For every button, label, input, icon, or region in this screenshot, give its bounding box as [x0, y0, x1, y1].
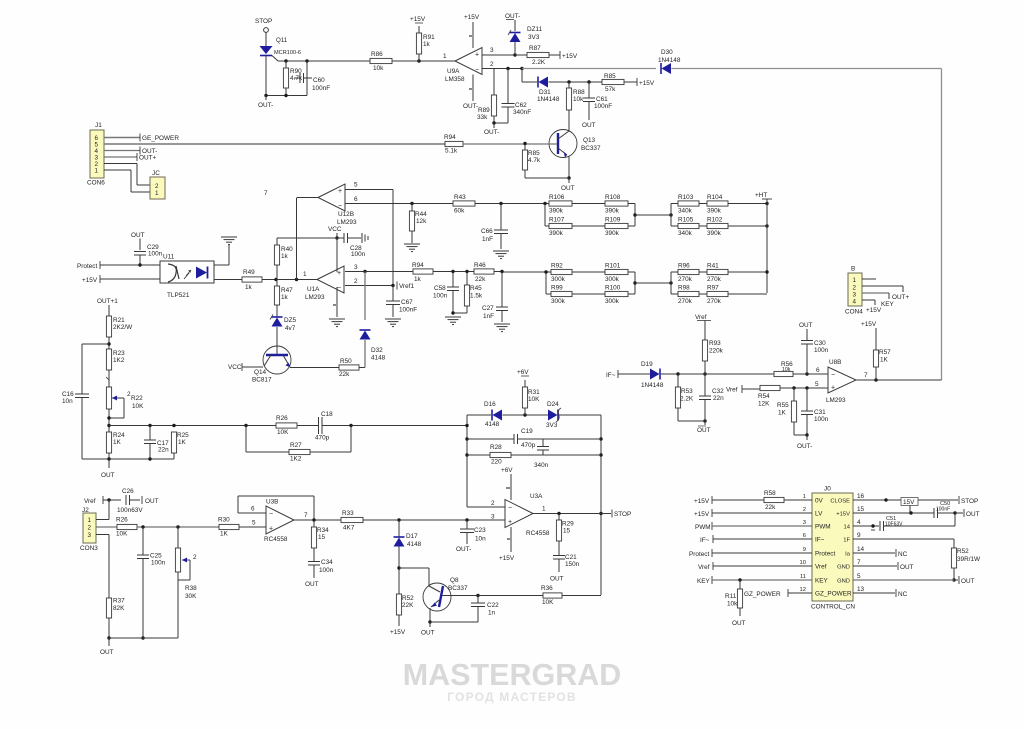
net VCC	[228, 363, 263, 371]
connector J2	[80, 507, 98, 552]
wire	[306, 61, 308, 96]
svg-text:12k: 12k	[416, 218, 427, 225]
svg-text:R41: R41	[707, 263, 719, 270]
diode D16	[484, 401, 502, 428]
svg-text:CON3: CON3	[80, 545, 98, 552]
wire pin2	[482, 61, 524, 70]
resistor R98	[671, 285, 699, 306]
resistor R90	[283, 61, 302, 96]
svg-text:VCC: VCC	[228, 364, 242, 371]
wire pin6 GE_POWER	[104, 134, 179, 143]
node STOP	[959, 496, 978, 505]
svg-text:1k: 1k	[423, 41, 431, 48]
resistor R47	[274, 280, 293, 318]
capacitor C66	[481, 204, 508, 250]
node OUT	[305, 581, 319, 588]
resistor R101	[605, 263, 628, 284]
resistor R25	[171, 432, 189, 459]
svg-text:KEY: KEY	[815, 578, 829, 585]
svg-text:RC4558: RC4558	[526, 530, 550, 537]
capacitor C22	[471, 596, 499, 617]
svg-text:10K: 10K	[277, 429, 289, 436]
wire pin1	[443, 53, 455, 61]
svg-text:IF~: IF~	[815, 537, 825, 544]
svg-text:R28: R28	[490, 444, 502, 451]
svg-text:OUT-: OUT-	[456, 546, 471, 553]
wire	[296, 198, 298, 280]
wire pin3	[482, 47, 527, 57]
svg-text:100n: 100n	[148, 251, 163, 258]
wire row5 right	[853, 549, 908, 558]
wire out	[533, 506, 611, 516]
svg-text:1K: 1K	[113, 439, 122, 446]
resistor R45	[464, 272, 482, 314]
svg-text:C18: C18	[321, 411, 333, 418]
power +15V	[390, 615, 406, 636]
svg-text:R30: R30	[218, 517, 230, 524]
wire pin6	[345, 196, 453, 205]
svg-text:R104: R104	[707, 194, 723, 201]
resistor R26b	[276, 415, 297, 436]
node STOP	[612, 510, 631, 519]
wire pin2	[104, 164, 150, 186]
svg-text:OUT: OUT	[697, 427, 711, 434]
resistor R30	[218, 517, 239, 538]
svg-text:CON6: CON6	[87, 180, 105, 187]
svg-text:R89: R89	[478, 107, 490, 114]
svg-text:U1A: U1A	[307, 286, 320, 293]
wire	[364, 272, 366, 321]
wire	[628, 204, 637, 227]
wire pin4	[862, 300, 882, 314]
svg-text:4148: 4148	[485, 421, 500, 428]
svg-text:CLOSE: CLOSE	[830, 499, 850, 505]
svg-text:100n: 100n	[151, 560, 166, 567]
svg-text:R100: R100	[605, 285, 621, 292]
wire pin5	[345, 182, 393, 190]
wire	[780, 381, 828, 390]
svg-text:−: −	[269, 511, 273, 518]
svg-text:R55: R55	[777, 402, 789, 409]
capacitor C28	[337, 233, 368, 258]
capacitor C60	[294, 73, 330, 92]
svg-text:1: 1	[542, 506, 546, 513]
resistor R58	[764, 490, 812, 511]
svg-text:C27: C27	[482, 305, 494, 312]
connector J0	[811, 486, 855, 611]
node OUT-	[484, 121, 508, 136]
svg-text:R25: R25	[177, 432, 189, 439]
svg-text:390k: 390k	[549, 230, 564, 237]
wire	[363, 518, 401, 521]
svg-text:5: 5	[857, 573, 861, 580]
net +HT	[755, 192, 772, 293]
svg-text:OUT: OUT	[561, 185, 575, 192]
wire	[545, 204, 549, 227]
svg-text:+15V: +15V	[390, 629, 406, 636]
svg-text:U11: U11	[163, 254, 175, 261]
svg-text:+15V: +15V	[836, 512, 850, 518]
wire	[952, 568, 955, 582]
wire	[628, 272, 637, 294]
ground	[494, 324, 510, 332]
svg-text:C26: C26	[122, 488, 134, 495]
diode D31	[537, 77, 560, 104]
resistor R94	[444, 134, 463, 155]
svg-text:KEY: KEY	[881, 301, 895, 308]
ground	[493, 251, 509, 259]
svg-text:1: 1	[853, 277, 857, 284]
svg-text:7: 7	[264, 190, 268, 197]
svg-text:1F: 1F	[843, 538, 850, 544]
ground	[385, 319, 401, 327]
svg-text:+15V: +15V	[866, 307, 882, 314]
resistor R41	[699, 263, 728, 284]
svg-text:NC: NC	[898, 551, 908, 558]
svg-text:R49: R49	[243, 269, 255, 276]
svg-text:C31: C31	[814, 409, 826, 416]
svg-text:J1: J1	[95, 122, 102, 129]
wire pin3	[345, 264, 413, 273]
svg-text:1: 1	[88, 517, 92, 524]
svg-text:+: +	[508, 519, 512, 526]
svg-text:10k: 10k	[373, 65, 384, 72]
wire feedback	[238, 496, 314, 520]
power pin U1A	[333, 287, 337, 317]
svg-text:100n63V: 100n63V	[117, 507, 143, 514]
wire	[793, 367, 828, 376]
svg-text:300k: 300k	[605, 298, 620, 305]
svg-text:13: 13	[857, 586, 865, 593]
svg-text:LM293: LM293	[337, 219, 357, 226]
svg-text:4: 4	[857, 519, 861, 526]
svg-text:5: 5	[252, 520, 256, 527]
power +6V	[517, 369, 529, 376]
svg-text:+15V: +15V	[410, 16, 426, 23]
svg-text:R102: R102	[707, 217, 723, 224]
svg-text:D24: D24	[547, 401, 559, 408]
svg-text:2: 2	[853, 285, 857, 292]
wire to ground	[214, 245, 229, 265]
resistor R97	[699, 285, 728, 306]
resistor R27	[289, 442, 310, 463]
svg-text:22n: 22n	[713, 395, 724, 402]
svg-text:R85: R85	[528, 150, 540, 157]
svg-text:R26: R26	[116, 517, 128, 524]
svg-text:C32: C32	[712, 388, 724, 395]
node STOP	[255, 18, 272, 32]
svg-text:C60: C60	[313, 77, 325, 84]
resistor R43	[453, 194, 475, 215]
node OUT	[561, 178, 575, 192]
svg-text:MCR100-6: MCR100-6	[274, 50, 301, 56]
ground	[445, 317, 461, 325]
svg-text:2: 2	[155, 183, 159, 190]
resistor R34	[311, 520, 329, 561]
wire emitter	[290, 367, 339, 369]
resistor R55	[777, 388, 797, 435]
svg-text:3: 3	[853, 292, 857, 299]
diode D30	[658, 49, 681, 74]
svg-text:−: −	[831, 372, 835, 379]
wire	[137, 525, 219, 528]
svg-text:STOP: STOP	[255, 18, 272, 25]
svg-text:R50: R50	[340, 358, 352, 365]
svg-text:270k: 270k	[678, 298, 693, 305]
wire +in	[399, 514, 505, 522]
svg-text:D31: D31	[539, 89, 551, 96]
svg-text:OUT+: OUT+	[892, 294, 909, 301]
svg-text:3V3: 3V3	[528, 34, 540, 41]
svg-text:1K: 1K	[880, 357, 889, 364]
svg-text:OUT: OUT	[100, 649, 114, 656]
svg-text:R92: R92	[551, 263, 563, 270]
svg-text:KEY: KEY	[697, 578, 711, 585]
capacitor C26	[117, 488, 143, 514]
svg-text:Vref: Vref	[726, 387, 738, 394]
svg-text:R11: R11	[725, 593, 737, 600]
op-amp U3B	[264, 499, 294, 544]
resistor R29	[556, 514, 574, 556]
svg-text:OUT: OUT	[799, 322, 813, 329]
wire	[278, 59, 370, 62]
svg-text:LV: LV	[815, 511, 823, 518]
wire	[661, 372, 707, 375]
resistor R49	[214, 269, 262, 291]
node Protect	[77, 261, 100, 270]
resistor R46	[474, 262, 494, 283]
svg-text:16: 16	[857, 493, 865, 500]
svg-text:5: 5	[354, 182, 358, 189]
wire	[430, 607, 478, 622]
potentiometer R38	[175, 527, 197, 600]
svg-text:Q11: Q11	[276, 37, 288, 44]
node Vref	[726, 385, 760, 394]
wire emitter	[567, 156, 570, 180]
wire	[100, 278, 160, 280]
resistor R28	[467, 444, 511, 466]
resistor R86	[370, 51, 392, 72]
svg-text:1N4148: 1N4148	[658, 57, 681, 64]
svg-text:C19: C19	[521, 428, 533, 435]
capacitor C58	[433, 272, 459, 314]
svg-text:R57: R57	[879, 349, 891, 356]
node OUT	[732, 608, 746, 627]
power OUT-	[463, 75, 478, 111]
svg-text:100nF: 100nF	[312, 85, 330, 92]
svg-text:12: 12	[800, 587, 806, 593]
svg-text:340k: 340k	[678, 230, 693, 237]
power +15V	[624, 78, 655, 87]
svg-text:GND: GND	[837, 579, 850, 585]
svg-text:Protect: Protect	[815, 551, 835, 558]
svg-text:Vref: Vref	[84, 498, 96, 505]
svg-text:4148: 4148	[371, 355, 386, 362]
node OUT	[101, 459, 115, 479]
resistor R109	[605, 217, 628, 238]
svg-text:2: 2	[491, 500, 495, 507]
wire row8 right	[853, 589, 908, 598]
svg-text:100nF: 100nF	[399, 307, 417, 314]
svg-text:GE_POWER: GE_POWER	[142, 135, 179, 142]
power +15V	[464, 14, 480, 48]
svg-text:−: −	[475, 67, 479, 74]
svg-text:OUT-: OUT-	[505, 13, 520, 20]
svg-text:22K: 22K	[402, 602, 414, 609]
svg-text:1K: 1K	[220, 531, 229, 538]
svg-text:OUT: OUT	[582, 122, 596, 129]
wire	[511, 454, 601, 456]
resistor R56	[774, 361, 793, 377]
op-amp U1A	[305, 266, 344, 301]
wire	[107, 337, 110, 349]
capacitor C30	[801, 340, 829, 374]
svg-text:BC817: BC817	[252, 377, 272, 384]
svg-text:OUT: OUT	[966, 511, 980, 518]
wire	[728, 270, 769, 294]
svg-text:2.2K: 2.2K	[532, 59, 546, 66]
resistor R100	[605, 285, 628, 306]
wire	[82, 457, 174, 460]
node OUT	[142, 496, 159, 505]
wire -in	[467, 500, 505, 507]
svg-text:Protect: Protect	[77, 263, 97, 270]
svg-text:Vref: Vref	[695, 314, 707, 321]
resistor R108	[605, 194, 628, 215]
wire	[264, 94, 307, 97]
svg-text:300k: 300k	[551, 298, 566, 305]
svg-text:Q8: Q8	[450, 577, 459, 584]
resistor R23	[106, 349, 125, 370]
svg-text:R34: R34	[317, 527, 329, 534]
net Vref1	[397, 282, 414, 291]
wire base	[276, 346, 278, 355]
node OUT	[550, 576, 564, 583]
wire	[109, 637, 178, 639]
svg-text:OUT-: OUT-	[258, 102, 273, 109]
resistor R107	[549, 217, 572, 238]
svg-text:1: 1	[803, 494, 806, 500]
svg-text:C58: C58	[434, 285, 446, 292]
capacitor C23	[456, 520, 486, 553]
svg-text:2: 2	[803, 507, 806, 513]
wire	[465, 415, 468, 507]
svg-text:1k: 1k	[281, 253, 289, 260]
node +15V row2	[694, 509, 812, 518]
wire	[522, 69, 537, 83]
svg-text:C22: C22	[487, 602, 499, 609]
wire	[82, 344, 109, 394]
svg-text:6: 6	[816, 367, 820, 374]
wire	[794, 433, 812, 450]
svg-text:22k: 22k	[339, 371, 350, 378]
wire	[544, 270, 605, 294]
svg-text:IF~: IF~	[606, 372, 616, 379]
wire	[297, 425, 318, 427]
wire out	[856, 372, 942, 382]
svg-text:B: B	[851, 266, 855, 273]
wire net	[941, 69, 943, 381]
svg-text:R53: R53	[681, 388, 693, 395]
svg-text:+15V: +15V	[464, 14, 480, 21]
wire	[106, 370, 109, 387]
svg-text:Ia: Ia	[845, 552, 851, 558]
svg-text:OUT: OUT	[101, 472, 115, 479]
svg-text:Vref: Vref	[815, 564, 827, 571]
svg-text:OUT: OUT	[961, 578, 975, 585]
svg-text:5.1k: 5.1k	[445, 148, 458, 155]
wire	[322, 424, 467, 427]
svg-text:−: −	[338, 203, 342, 210]
connector JC	[150, 170, 165, 199]
svg-text:R108: R108	[605, 194, 621, 201]
capacitor C61	[583, 82, 612, 120]
net VCC	[328, 226, 342, 240]
capacitor C17	[144, 426, 169, 460]
svg-text:270k: 270k	[678, 276, 693, 283]
wire row6 right	[853, 562, 914, 571]
svg-text:7: 7	[864, 372, 868, 379]
wire	[494, 270, 504, 273]
node OUT	[697, 426, 711, 434]
wire pin5 net	[104, 143, 445, 145]
resistor R85b	[522, 144, 540, 179]
svg-text:OUT+1: OUT+1	[97, 298, 118, 305]
svg-text:11: 11	[800, 574, 806, 580]
resistor R93	[702, 340, 723, 374]
thyristor Q11	[260, 37, 302, 61]
svg-text:+: +	[338, 188, 342, 195]
node Vref row6	[698, 562, 812, 571]
svg-text:C16: C16	[62, 391, 74, 398]
wire	[705, 373, 774, 375]
ground	[404, 244, 420, 252]
wire pin1	[104, 170, 150, 192]
node OUT	[955, 509, 980, 518]
diode D19	[641, 361, 664, 389]
wire pin3	[862, 293, 895, 308]
svg-text:CONTROL_CN: CONTROL_CN	[811, 604, 855, 611]
wire row3 right	[853, 524, 879, 530]
svg-text:6: 6	[354, 196, 358, 203]
svg-text:1K: 1K	[178, 439, 187, 446]
resistor R102	[699, 217, 728, 238]
svg-text:D17: D17	[406, 533, 418, 540]
svg-text:3: 3	[88, 532, 92, 539]
svg-text:OUT-: OUT-	[463, 103, 478, 110]
svg-text:1N4148: 1N4148	[641, 382, 664, 389]
svg-text:100n: 100n	[814, 416, 829, 423]
op-amp U3A	[505, 493, 550, 537]
svg-text:BC337: BC337	[448, 585, 468, 592]
connector J0 labels	[815, 498, 852, 598]
svg-text:60k: 60k	[454, 208, 465, 215]
wire base	[399, 568, 429, 586]
optocoupler U11	[160, 254, 214, 300]
svg-text:340k: 340k	[678, 208, 693, 215]
svg-text:R96: R96	[678, 263, 690, 270]
wire	[678, 419, 707, 425]
capacitor C51	[880, 513, 955, 531]
svg-text:OUT: OUT	[421, 630, 435, 637]
svg-text:1K: 1K	[778, 410, 787, 417]
svg-text:R98: R98	[678, 285, 690, 292]
svg-text:R22: R22	[131, 395, 143, 402]
resistor R33	[341, 510, 363, 532]
svg-text:10K: 10K	[116, 531, 128, 538]
wire node1	[262, 271, 317, 281]
svg-text:R99: R99	[551, 285, 563, 292]
